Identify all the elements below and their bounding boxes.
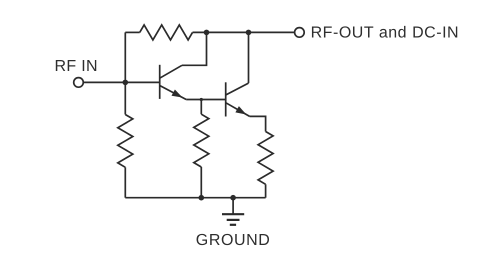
wire emitter node to R3 bbox=[200, 100, 202, 115]
svg-text:RF IN: RF IN bbox=[55, 58, 98, 75]
wire Q1 collector to top rail bbox=[182, 32, 207, 65]
transistor Q2 bbox=[225, 82, 227, 116]
node dot emitter/R3 junction bbox=[200, 98, 203, 101]
terminal RF IN bbox=[74, 78, 84, 88]
wire R4 to bottom rail bbox=[265, 184, 267, 197]
wire RF IN to Q1 base bbox=[83, 81, 159, 83]
node dot ground tap bbox=[230, 195, 236, 201]
wire R3 to bottom rail bbox=[200, 167, 202, 198]
wire Q1 emitter to Q2 base bbox=[186, 99, 226, 101]
node dot RF IN junction bbox=[123, 80, 129, 86]
wire Q2 emitter to R4 bbox=[250, 116, 266, 131]
terminal RF-OUT and DC-IN bbox=[295, 28, 305, 38]
wire Q2 collector to top rail bbox=[248, 32, 250, 83]
resistor R4 (right, emitter) bbox=[258, 132, 273, 185]
wire bottom rail bbox=[125, 197, 265, 199]
node dot R3 bottom rail bbox=[199, 195, 205, 201]
resistor R1 (feedback, top) bbox=[140, 25, 193, 40]
ground bbox=[232, 198, 234, 215]
wire R2 to bottom rail bbox=[124, 167, 126, 197]
svg-text:RF-OUT and DC-IN: RF-OUT and DC-IN bbox=[311, 24, 459, 41]
wire left vertical (top rail to R2) bbox=[124, 32, 126, 114]
svg-text:GROUND: GROUND bbox=[196, 232, 270, 249]
wire top rail right segment bbox=[193, 31, 295, 33]
resistor R3 (middle) bbox=[194, 114, 209, 167]
transistor Q1 bbox=[159, 65, 161, 99]
resistor R2 (input shunt, left) bbox=[118, 115, 133, 168]
node dot top rail / Q1 collector bbox=[204, 30, 210, 36]
wire top rail left segment bbox=[125, 31, 139, 33]
node dot top rail / Q2 collector bbox=[246, 30, 252, 36]
